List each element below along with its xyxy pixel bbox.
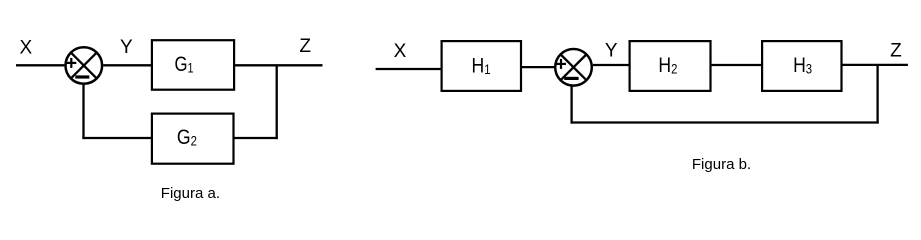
wire: H2 to H3 [711,64,763,66]
wire: feedback up into summing junction S2 bottom [570,87,572,124]
plus sign (S1 input) [66,58,76,68]
svg-text:Figura a.: Figura a. [161,185,220,202]
block H2 [630,41,711,91]
summing junction S1 (circle with cross) [66,47,103,84]
wire: G1 output to Z [235,64,323,66]
wire: summing junction to block H2 [593,64,630,66]
wire: feedback into G2 right side [235,137,278,139]
svg-text:Y: Y [120,37,133,58]
wire: summing junction to block G1 [103,64,151,66]
svg-text:X: X [19,38,32,59]
wire: input X to summing junction (figura a) [16,64,64,66]
wire: H3 output to Z [842,64,908,66]
wire: H1 to summing junction S2 [522,66,555,68]
minus sign (S2 feedback input) [564,77,578,80]
plus sign (S2 input) [556,59,566,69]
block H3 [762,41,841,91]
wire: input X to block H1 [376,68,441,70]
block G2 [152,114,234,164]
svg-text:Figura b.: Figura b. [692,156,751,173]
svg-text:X: X [394,41,407,62]
svg-text:Z: Z [890,40,902,61]
wire: branch from output down (figura b) [876,65,878,124]
block H1 [442,41,521,91]
svg-text:Y: Y [605,41,618,62]
minus sign (S1 feedback input) [75,75,89,78]
summing junction S2 (circle with cross) [555,49,592,86]
wire: feedback up into summing junction bottom [82,85,84,139]
svg-text:Z: Z [299,36,311,57]
wire: feedback bottom run (figura b) [571,121,879,123]
block G1 [152,40,234,89]
wire: G2 output left toward summing junction [82,137,151,139]
wire: branch from output down to feedback row (figura a) [276,65,278,139]
